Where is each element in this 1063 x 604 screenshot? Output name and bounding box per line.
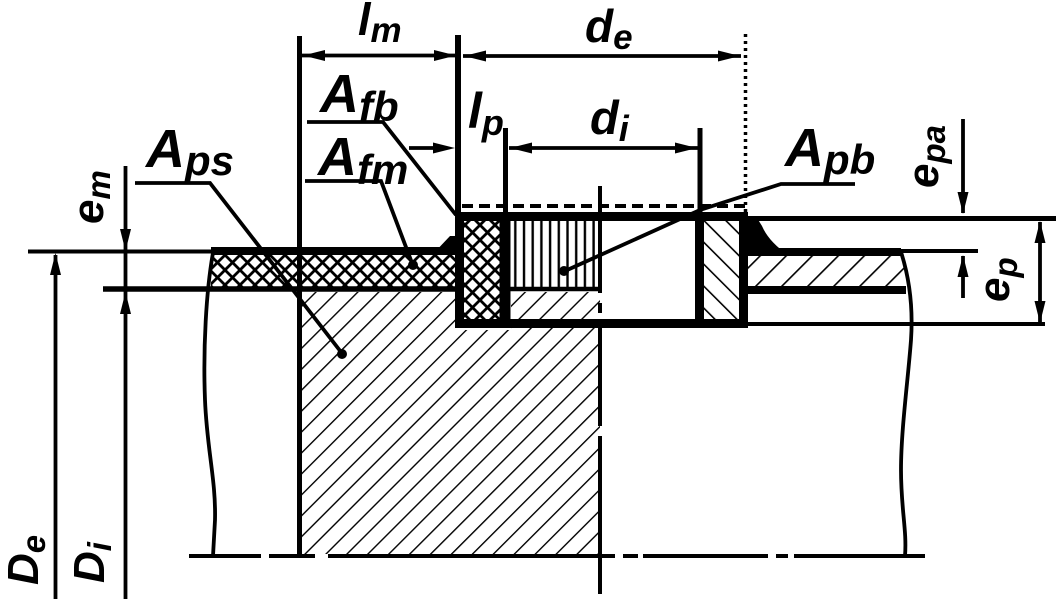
label Afm with leader and dot <box>305 127 418 270</box>
dimension em vertical line with Di line <box>120 166 131 599</box>
nozzle bore vertical centerline <box>598 186 602 594</box>
label De rotated <box>0 535 52 585</box>
label epa rotated <box>899 125 952 188</box>
label de <box>585 0 633 57</box>
pipe wall hatched band <box>748 256 908 286</box>
label di <box>590 91 630 149</box>
lp right extension line <box>503 128 508 216</box>
shell inner surface line (Di level) <box>103 286 459 292</box>
left break wavy line <box>204 250 215 556</box>
pipe inner surface line <box>744 322 1045 326</box>
dimension ep <box>1035 221 1046 323</box>
label Apb with leader and dot <box>559 118 875 276</box>
right break wavy line <box>901 252 912 556</box>
label Aps with leader and dot <box>135 119 347 359</box>
label lp <box>468 83 504 143</box>
label Di rotated <box>65 541 118 583</box>
nozzle left wall crosshatched <box>464 221 500 319</box>
nozzle right wall hatched <box>704 221 739 319</box>
label em rotated <box>64 170 117 224</box>
lm right extension / nozzle left edge extension <box>455 35 461 216</box>
Apb pressure area vertical hatch <box>504 221 601 289</box>
gasket band crosshatched <box>211 251 459 287</box>
label lm <box>358 0 402 50</box>
shell top surface line left <box>28 250 213 254</box>
dotted extension line de right <box>744 34 748 212</box>
pipe wall bottom thick line <box>744 286 906 294</box>
shell block left edge / lm extension line <box>297 36 302 556</box>
nozzle outline rectangle <box>460 217 744 324</box>
dimension lm <box>302 50 457 61</box>
nozzle bore right wall edge <box>697 128 703 324</box>
dimension epa <box>958 119 969 298</box>
shell block hatched section <box>302 292 600 554</box>
dashed gasket line <box>462 204 746 208</box>
pipe top reference line <box>744 216 1056 221</box>
label ep rotated <box>970 257 1024 302</box>
nozzle left wall inner border <box>500 214 511 326</box>
label Afb with leader <box>307 64 456 215</box>
dimension lp arrow <box>409 143 455 154</box>
bottom axis line <box>189 554 925 558</box>
left weld fillet triangle <box>432 236 455 255</box>
dimension di <box>509 143 698 154</box>
right weld fillet triangle <box>747 218 784 252</box>
dimension de <box>463 51 741 62</box>
pipe outer surface thick line <box>744 251 978 252</box>
dimension De line <box>50 253 61 599</box>
